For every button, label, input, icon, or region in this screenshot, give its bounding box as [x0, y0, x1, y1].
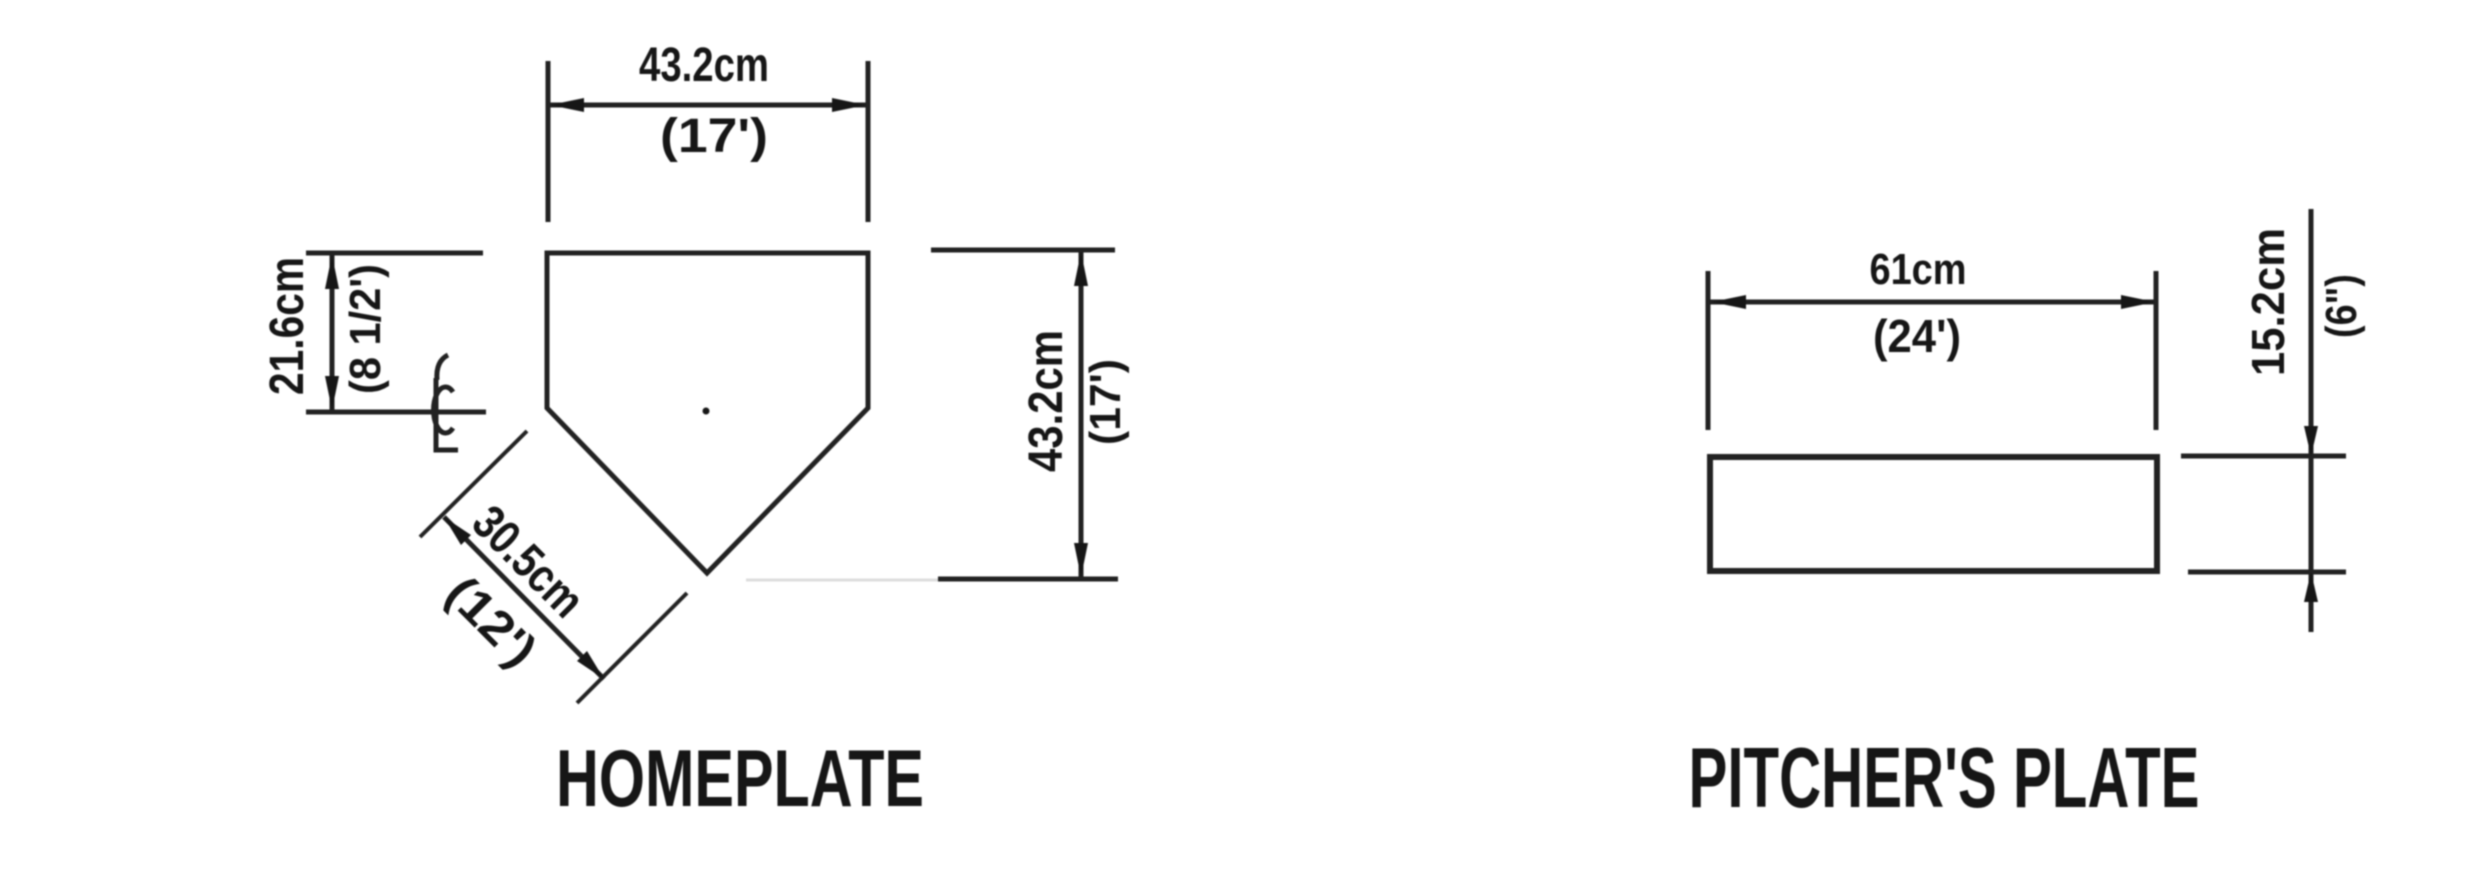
svg-text:21.6cm: 21.6cm: [261, 257, 314, 395]
svg-text:15.2cm: 15.2cm: [2242, 228, 2294, 376]
svg-text:(17'): (17'): [1081, 359, 1130, 445]
svg-text:43.2cm: 43.2cm: [639, 39, 769, 92]
svg-text:43.2cm: 43.2cm: [1020, 330, 1073, 472]
svg-text:(17'): (17'): [660, 110, 768, 163]
svg-text:PITCHER'S PLATE: PITCHER'S PLATE: [1689, 731, 2200, 826]
svg-text:(8 1/2'): (8 1/2'): [341, 264, 390, 394]
svg-text:HOMEPLATE: HOMEPLATE: [556, 734, 924, 824]
svg-text:61cm: 61cm: [1870, 245, 1967, 294]
svg-text:(6"): (6"): [2317, 274, 2366, 338]
svg-text:(24'): (24'): [1873, 310, 1961, 362]
